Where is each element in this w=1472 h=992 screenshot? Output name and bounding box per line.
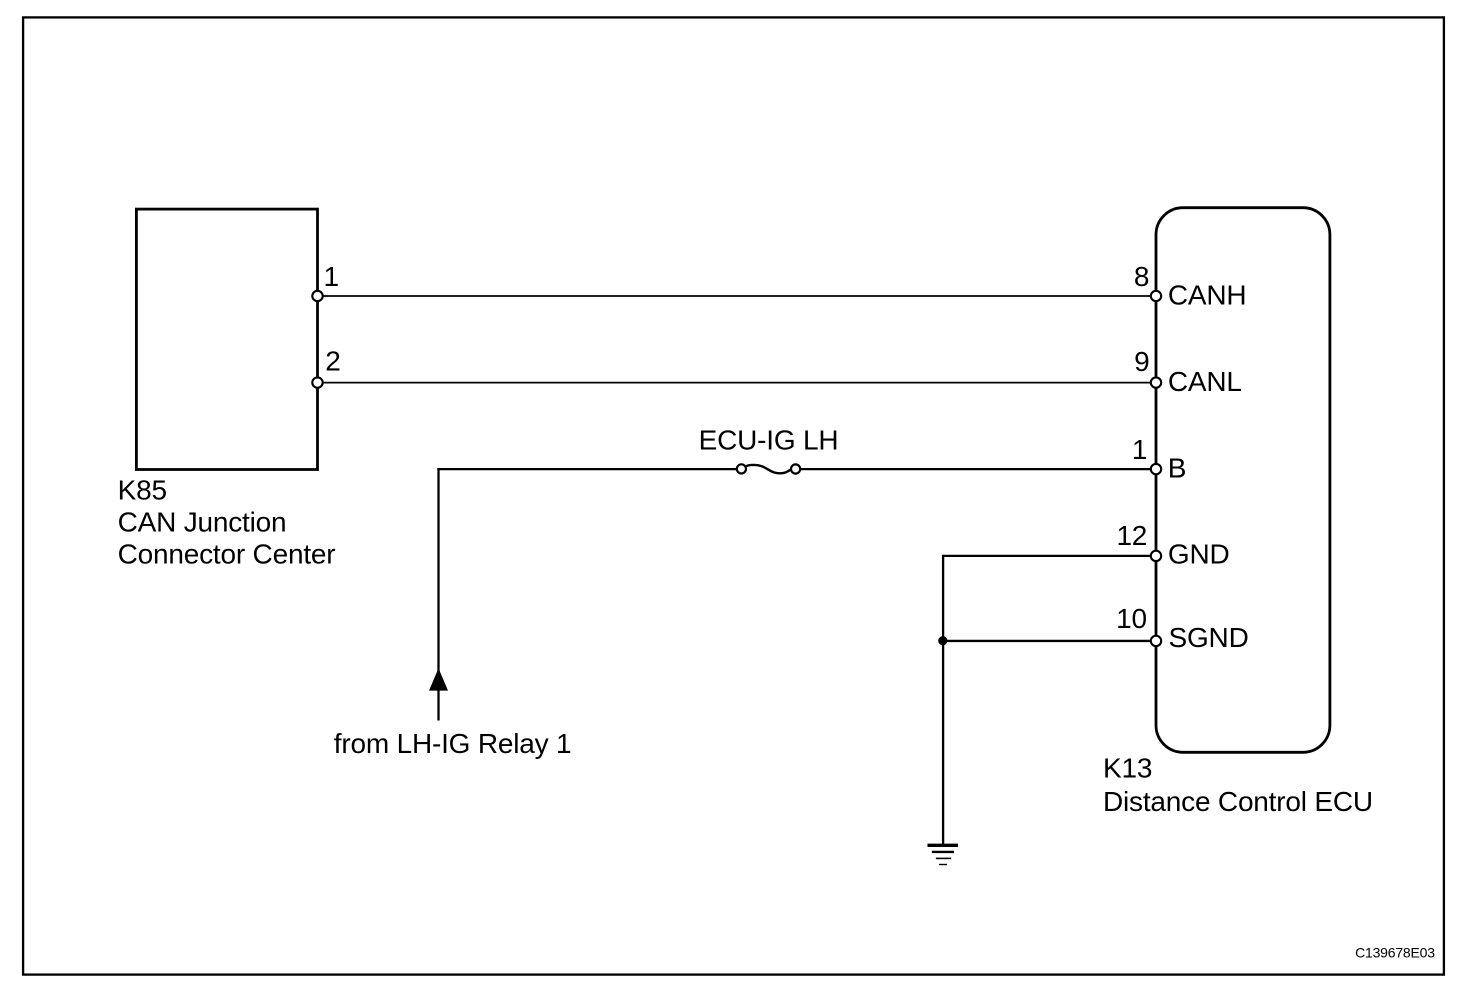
svg-text:ECU-IG LH: ECU-IG LH [699, 425, 839, 456]
fuse ECU-IG LH [737, 464, 800, 473]
svg-text:1: 1 [1132, 434, 1147, 465]
pin 12 GND [1151, 551, 1161, 561]
svg-text:GND: GND [1168, 539, 1230, 570]
svg-text:Distance Control ECU: Distance Control ECU [1103, 786, 1373, 817]
svg-text:Connector Center: Connector Center [118, 539, 336, 570]
pin 10 SGND [1151, 636, 1161, 646]
pin 1 B [1151, 464, 1161, 474]
svg-text:2: 2 [325, 346, 340, 377]
svg-text:9: 9 [1134, 346, 1149, 377]
svg-text:1: 1 [324, 261, 339, 292]
svg-text:12: 12 [1116, 520, 1147, 551]
ECU K13 box [1156, 208, 1330, 753]
pin 1 of K85 [312, 291, 322, 301]
wire B horizontal to fuse [437, 468, 736, 470]
wire GND from pin 12 [943, 555, 1152, 557]
ground symbol [928, 845, 959, 864]
pin 9 CANL [1151, 377, 1161, 387]
svg-text:K13: K13 [1103, 753, 1152, 784]
wire from relay: vertical [437, 468, 439, 721]
svg-text:from LH-IG Relay 1: from LH-IG Relay 1 [334, 728, 572, 759]
wire CANL (K85 pin 2 to K13 pin 9) [322, 382, 1152, 384]
svg-text:CAN Junction: CAN Junction [118, 506, 287, 537]
svg-text:SGND: SGND [1169, 622, 1249, 653]
svg-text:C139678E03: C139678E03 [1355, 945, 1435, 961]
svg-text:B: B [1168, 453, 1186, 484]
wire SGND from pin 10 [943, 640, 1152, 642]
svg-text:K85: K85 [118, 474, 167, 505]
wire CANH (K85 pin 1 to K13 pin 8) [322, 295, 1152, 297]
wire fuse to K13 pin 1 B [800, 468, 1151, 470]
svg-text:CANH: CANH [1168, 280, 1247, 311]
wire ground drop [942, 555, 944, 845]
pin 8 CANH [1151, 291, 1161, 301]
svg-text:10: 10 [1116, 603, 1147, 634]
pin 2 of K85 [312, 377, 322, 387]
junction node [938, 636, 947, 645]
svg-text:CANL: CANL [1168, 366, 1242, 397]
svg-text:8: 8 [1134, 261, 1149, 292]
arrow from LH-IG Relay 1 [429, 668, 448, 690]
connector K85 box [136, 209, 317, 469]
